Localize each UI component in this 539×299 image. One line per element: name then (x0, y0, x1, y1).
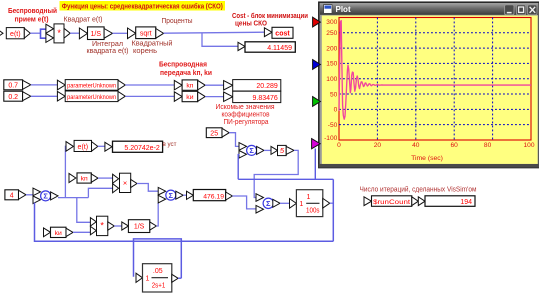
svg-text:Число итераций, сделанных VisS: Число итераций, сделанных VisSim'ом (360, 186, 477, 194)
const block 0.2 (4, 91, 31, 101)
svg-text:0.7: 0.7 (8, 83, 18, 90)
close button (528, 5, 537, 15)
svg-text:Σ: Σ (43, 191, 48, 200)
variable block e(t) (error sensor) (66, 140, 98, 151)
plot input pin 2 (blue) (313, 60, 321, 70)
svg-text:194: 194 (460, 199, 472, 206)
plot input pin 3 (green) (313, 97, 321, 107)
plot input pin 1 (red) (313, 17, 321, 27)
integrator block 1/S (PI integral) (122, 220, 157, 233)
variable block $runCount (364, 196, 418, 207)
svg-text:ПИ-регулятора: ПИ-регулятора (224, 119, 269, 126)
svg-text:Σ: Σ (266, 199, 271, 208)
svg-text:4: 4 (10, 192, 14, 199)
svg-text:20.289: 20.289 (256, 83, 278, 90)
plot window frame (319, 2, 539, 167)
multiplier block kп*e (113, 173, 137, 193)
svg-text:0.2: 0.2 (8, 94, 18, 101)
wire plant output vertical (332, 179, 334, 241)
svg-text:9.83476: 9.83476 (252, 95, 277, 102)
parameterUnknown block 2 (57, 91, 125, 102)
wire sum to display 476.19 (183, 194, 186, 196)
svg-text:sqrt: sqrt (140, 31, 152, 38)
svg-text:Искомые значения: Искомые значения (216, 104, 275, 111)
wire multiplier to integrator 1/S (114, 225, 122, 227)
cost block (264, 27, 293, 38)
display 5.20742e-2 (steady-state error) (105, 141, 163, 152)
const block 4 (setpoint) (5, 190, 26, 200)
svg-text:100: 100 (523, 142, 534, 149)
plot input pin 4 (magenta) (312, 139, 321, 149)
gain block 5 (271, 145, 294, 155)
plot axis box (339, 18, 531, 141)
label: Беспроводный прием e(t) (8, 6, 57, 24)
plot vertical gridlines (377, 18, 492, 141)
svg-text:25: 25 (210, 130, 218, 137)
wire 0.7 to parameterUnknown (31, 84, 58, 86)
parameterUnknown block 1 (57, 80, 125, 91)
label (yellow highlight): Функция цены (60, 1, 226, 11)
svg-text:4.11459: 4.11459 (267, 45, 292, 52)
wire gain 5 down and left to plant summing junction (254, 150, 298, 197)
wire kп to multiplier (98, 177, 113, 179)
svg-text:80: 80 (484, 142, 492, 149)
svg-text:-100: -100 (324, 135, 338, 142)
wire 476.19 to plant summing junction (232, 196, 256, 209)
plot horizontal gridlines (339, 33, 531, 125)
svg-text:квадрата e(t): квадрата e(t) (87, 48, 129, 55)
wire integrator to sqrt (113, 32, 128, 34)
const block 0.7 (4, 80, 31, 90)
svg-text:50: 50 (330, 91, 338, 98)
maximize button (516, 5, 525, 15)
svg-text:0: 0 (334, 107, 338, 114)
svg-text:60: 60 (451, 142, 459, 149)
svg-text:parameterUnknown: parameterUnknown (67, 82, 116, 89)
svg-text:прием e(t): прием e(t) (15, 15, 49, 24)
summing junction (25 + feedback) (239, 143, 264, 159)
svg-text:kи: kи (55, 230, 62, 237)
svg-text:Беспроводная: Беспроводная (159, 62, 207, 69)
wire kп to display (205, 84, 223, 86)
svg-text:kи: kи (186, 94, 193, 101)
svg-text:250: 250 (326, 30, 337, 37)
svg-text:Функция цены: среднеквадратиче: Функция цены: среднеквадратическая ошибк… (62, 3, 223, 11)
display 9.83476 (kи value) (224, 91, 281, 102)
svg-text:476.19: 476.19 (203, 193, 224, 200)
label: Искомые значения коэффициентов ПИ-регулятора (216, 104, 275, 126)
svg-text:1: 1 (146, 276, 150, 283)
variable block kп (transmit) (174, 80, 205, 90)
svg-text:e(t): e(t) (78, 144, 89, 151)
svg-text:1: 1 (299, 201, 303, 208)
svg-text:100s: 100s (306, 207, 320, 214)
sensor bridge wires (134, 239, 182, 278)
display 4.11459 (MSE value) (238, 42, 295, 52)
wire parameterUnknown1 to kп (125, 84, 174, 86)
wire parameterUnknown2 to kи (125, 95, 174, 97)
svg-text:kп: kп (186, 83, 193, 90)
svg-text:1/S: 1/S (134, 224, 145, 231)
svg-text:200: 200 (326, 45, 337, 52)
svg-text:150: 150 (326, 61, 337, 68)
label: Интеграл квадрата e(t) (87, 41, 129, 55)
wire branch up to plot input pin (314, 149, 316, 180)
square root block sqrt (128, 27, 164, 39)
transfer function block 1/(100s) (plant) (290, 190, 330, 217)
plot curve (step response) (339, 21, 531, 120)
svg-text:2s+1: 2s+1 (152, 283, 166, 290)
svg-text:корень: корень (133, 48, 157, 55)
wire multiplier to output summing junction (137, 184, 158, 192)
svg-text:Σ: Σ (169, 191, 174, 200)
wire e(t) to display (98, 145, 105, 147)
svg-text:Квадратный: Квадратный (132, 40, 173, 48)
svg-text:Time (sec): Time (sec) (411, 155, 443, 162)
svg-text:1: 1 (307, 194, 311, 201)
wire branch up to 25-sum lower input (238, 155, 239, 180)
const block 25 (206, 128, 229, 138)
wire error up to e(t) display branch (64, 146, 67, 197)
svg-text:$runCount: $runCount (373, 199, 410, 206)
svg-text:.05: .05 (153, 268, 163, 275)
wire integrator up to output summing junction (156, 203, 158, 226)
label: Беспроводная передача kп, kи (159, 62, 212, 78)
wire error up to kп multiplier (88, 188, 112, 197)
variable block kп (receive) (69, 173, 98, 183)
plot x-axis labels (337, 142, 535, 149)
display 20.289 (kп value) (224, 80, 281, 91)
svg-text:*: * (57, 28, 61, 38)
variable block kи (receive) (44, 227, 74, 237)
wire multiplier to integrator (70, 32, 79, 34)
wire branch down to MSE display (202, 33, 238, 47)
wire sum to plant (280, 202, 290, 204)
wire plant output to plot and to 25-sum (238, 178, 333, 180)
wire sum to gain 5 (264, 149, 271, 151)
wire error down to kи multiplier (77, 198, 91, 223)
svg-text:20: 20 (374, 142, 382, 149)
wire kи to multiplier (73, 231, 90, 233)
svg-text:parameterUnknown: parameterUnknown (67, 94, 116, 101)
wire e(t) to wireless bracket (30, 32, 40, 34)
svg-text:передача kп, kи: передача kп, kи (160, 70, 212, 77)
plant summing junction (256, 194, 280, 213)
svg-text:Cost - блок минимизации: Cost - блок минимизации (232, 12, 308, 20)
wire sqrt to cost block with branch to display (164, 32, 265, 33)
svg-text:*: * (100, 221, 104, 231)
svg-text:-50: -50 (328, 122, 338, 129)
variable block kи (transmit) (174, 91, 205, 101)
svg-text:цены СКО: цены СКО (235, 21, 268, 28)
svg-text:5.20742e-2: 5.20742e-2 (124, 145, 160, 152)
svg-text:×: × (123, 179, 127, 188)
wire 0.2 to parameterUnknown 2 (31, 95, 58, 97)
error summing junction (4 - feedback) (33, 188, 58, 204)
label: Квадратный корень (132, 40, 173, 56)
wire 25 to summing junction (229, 133, 239, 147)
display 194 (iterations) (418, 196, 475, 207)
plot yellow background (322, 16, 538, 164)
svg-text:0: 0 (337, 142, 341, 149)
wireless connector bracket (41, 29, 47, 38)
display 476.19 (control signal) (187, 190, 233, 201)
svg-text:1/S: 1/S (91, 31, 102, 38)
plot window title bar (320, 3, 538, 14)
error wire from summing junction (58, 197, 88, 199)
svg-text:Квадрат e(t): Квадрат e(t) (64, 17, 103, 24)
svg-text:Проценты: Проценты (162, 18, 193, 25)
svg-text:Plot: Plot (336, 5, 351, 14)
wire 4 to error summing junction (26, 194, 33, 196)
svg-text:e(t): e(t) (10, 31, 21, 38)
integrator block 1/S (79, 27, 112, 40)
feedback wire (plant output to error sum) (35, 203, 334, 242)
svg-text:Интеграл: Интеграл (92, 41, 123, 48)
wire plant output to junction (330, 202, 334, 204)
transfer function block 0.5/(2s+1) (sensor) (136, 264, 178, 292)
svg-text:300: 300 (326, 19, 337, 26)
svg-text:в уст: в уст (163, 141, 177, 148)
svg-text:cost: cost (275, 30, 290, 37)
svg-text:40: 40 (412, 142, 420, 149)
svg-text:100: 100 (326, 76, 337, 83)
variable block e(t) (wireless receive) (0, 28, 30, 39)
label: Cost - блок минимизации цены СКО (232, 12, 308, 28)
wire sensor output stub (178, 277, 181, 279)
svg-text:Σ: Σ (249, 146, 254, 155)
minimize button (505, 5, 514, 15)
wire kи to display (205, 96, 223, 98)
multiplier block (squares e(t)) (46, 24, 70, 43)
svg-text:коэффициентов: коэффициентов (222, 112, 270, 119)
svg-text:kп: kп (81, 176, 88, 183)
multiplier block kи*e (90, 216, 114, 235)
plot y-axis labels (324, 19, 338, 142)
plot window icon (324, 5, 332, 14)
PI output summing junction (158, 187, 183, 203)
